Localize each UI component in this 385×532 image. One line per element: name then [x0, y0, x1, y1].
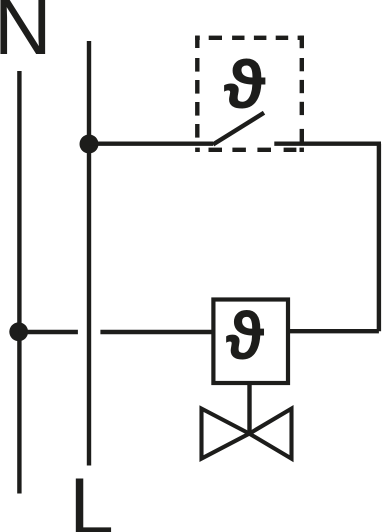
valve V1 left triangle [202, 409, 250, 459]
wire from N junction (segment before L crossing) [19, 330, 78, 334]
thermostat B1 dashed box left edge [195, 36, 199, 138]
wire from actuator to right vertical [288, 329, 379, 333]
wire L vertical [87, 41, 91, 466]
valve V1 right triangle [249, 409, 291, 459]
wire N vertical [17, 71, 21, 494]
thermostat B1 dashed box right edge [300, 36, 304, 146]
svg-text:ϑ: ϑ [225, 300, 264, 374]
wire from N junction (segment after L crossing) [100, 330, 213, 334]
thermostat temperature symbol [223, 46, 265, 122]
thermostat B1 dashed box bottom edge [195, 148, 304, 152]
node junction on L [80, 135, 99, 154]
actuator M1 box [213, 300, 288, 384]
svg-text:ϑ: ϑ [223, 46, 265, 122]
node junction on N [9, 322, 28, 341]
wire from switch to right [274, 141, 381, 145]
svg-text:N: N [0, 0, 52, 71]
switch S1 moving contact [213, 113, 264, 145]
thermostat B1 dashed box top edge [195, 36, 304, 40]
wire from L junction to switch [89, 141, 213, 145]
wire right vertical [377, 144, 381, 332]
svg-text:L: L [69, 461, 114, 532]
wire valve stem [247, 383, 251, 434]
